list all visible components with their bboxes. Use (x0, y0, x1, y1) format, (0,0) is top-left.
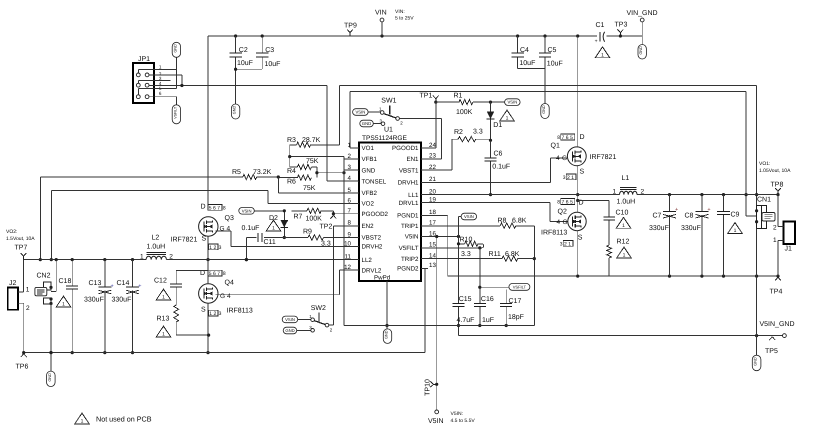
net VSIN at D2 (239, 208, 284, 215)
transistor Q1 IRF7821 (551, 134, 617, 176)
transistor Q1 bottom pins (563, 174, 576, 181)
svg-text:IRF8113: IRF8113 (227, 308, 253, 315)
svg-text:10uF: 10uF (237, 60, 253, 67)
net VSFILT above C17 (478, 284, 530, 304)
svg-text:R4: R4 (287, 168, 296, 175)
svg-text:GND: GND (542, 105, 546, 114)
net VSIN above R10 (459, 213, 477, 220)
warning triangle C10 (616, 217, 631, 229)
svg-text:C17: C17 (509, 298, 522, 305)
svg-text:6: 6 (348, 197, 352, 204)
svg-text:4: 4 (227, 293, 231, 300)
svg-text:1: 1 (62, 302, 65, 308)
svg-text:TP1: TP1 (420, 93, 433, 100)
svg-text:1: 1 (506, 116, 509, 122)
resistor R12 (snubber) (607, 239, 630, 277)
svg-text:SW1: SW1 (381, 98, 396, 105)
svg-text:330uF: 330uF (681, 225, 701, 232)
svg-text:R13: R13 (157, 316, 170, 323)
svg-text:C9: C9 (731, 212, 740, 219)
svg-text:GND: GND (173, 44, 177, 53)
resistor R13 (snubber) (157, 305, 211, 337)
svg-text:R7: R7 (294, 214, 303, 221)
wire TONSEL select (JP1 to U1 pin 4) (149, 84, 359, 181)
svg-text:V5IN: V5IN (405, 234, 419, 241)
svg-text:VIN_GND: VIN_GND (627, 10, 658, 17)
connector J2 (8, 280, 30, 312)
diode D2 (269, 209, 288, 239)
resistor R11 6.8K (421, 251, 534, 261)
wire J2 pin2 to GND bus (18, 303, 24, 352)
op-amp U1 pin stubs (352, 148, 428, 270)
svg-text:EN2: EN2 (362, 223, 375, 230)
svg-text:U1: U1 (384, 127, 393, 134)
svg-text:5: 5 (348, 187, 352, 194)
svg-text:V5IN: V5IN (428, 418, 444, 425)
wire VFB2 (divider to U1 pin 5) (278, 177, 359, 193)
svg-text:4: 4 (348, 175, 352, 182)
resistor R8 6.8K (421, 218, 534, 229)
wire PGND1 (U1 pin 18) (421, 215, 448, 276)
svg-text:3: 3 (560, 241, 563, 247)
svg-text:PwPd: PwPd (374, 275, 391, 282)
svg-text:6.8K: 6.8K (512, 218, 527, 225)
svg-text:3: 3 (219, 245, 222, 251)
wire VO2 sense B (U1 pin 6) (50, 190, 359, 261)
wire J2 pin1 to VO2 (18, 260, 23, 292)
svg-text:1: 1 (773, 237, 777, 244)
svg-text:VFB1: VFB1 (362, 156, 378, 163)
ground GND below V5IN_GND (752, 336, 761, 371)
svg-text:R6: R6 (287, 178, 296, 185)
net VSIN at SW1 (353, 109, 381, 116)
ground GND above JP1 (172, 42, 180, 57)
svg-text:3.3: 3.3 (461, 251, 471, 258)
svg-text:C15: C15 (459, 296, 472, 303)
svg-text:+: + (138, 284, 141, 290)
svg-text:4: 4 (557, 219, 561, 226)
svg-text:3: 3 (563, 175, 566, 181)
svg-text:4.5 to 5.5V: 4.5 to 5.5V (451, 418, 476, 424)
ground GND below C5 (541, 104, 549, 119)
wire Q3 source to LL2 (206, 236, 209, 261)
ground GND at SW2 (283, 327, 311, 334)
svg-text:TP7: TP7 (15, 245, 28, 252)
capacitor C10 (snubber) (578, 201, 629, 246)
wire PGND bottom row (448, 275, 780, 278)
node TP9 test point (344, 23, 357, 37)
svg-text:Q3: Q3 (225, 215, 234, 222)
svg-text:VBST1: VBST1 (399, 167, 419, 174)
op-amp U1 pin numbers and names (344, 142, 436, 274)
svg-text:1.0uH: 1.0uH (147, 244, 166, 251)
svg-text:G: G (563, 219, 568, 226)
inductor L1 1.0uH (613, 175, 645, 206)
svg-text:VBST2: VBST2 (362, 235, 382, 242)
svg-text:GND: GND (754, 357, 758, 366)
svg-text:TP8: TP8 (771, 182, 784, 189)
svg-text:1.0uH: 1.0uH (617, 199, 636, 206)
resistor R3 28.7K (287, 137, 321, 157)
svg-text:TRIP1: TRIP1 (401, 223, 419, 230)
svg-text:EN1: EN1 (406, 156, 419, 163)
node TP3 test point (615, 22, 628, 38)
capacitor C1 (series, not used) (595, 22, 605, 44)
svg-text:C14: C14 (117, 280, 130, 287)
warning triangle CN2 (56, 296, 71, 308)
svg-text:VSIN: VSIN (464, 214, 474, 219)
switch SW1 (379, 98, 403, 126)
svg-text:3.3: 3.3 (321, 240, 331, 247)
svg-text:GND: GND (639, 46, 643, 55)
svg-text:VO1: VO1 (362, 145, 375, 152)
connector CN2 (35, 272, 53, 305)
warning triangle R13 (156, 326, 171, 338)
svg-text:D: D (200, 270, 205, 277)
svg-text:J2: J2 (9, 280, 17, 287)
wire VIN drop to Q3 drain (207, 36, 209, 207)
wire JP1 pin2 (149, 75, 182, 86)
svg-text:1.5Vout, 10A: 1.5Vout, 10A (6, 236, 35, 242)
svg-text:1: 1 (601, 53, 604, 59)
wire J1 pin2 from VO1 (778, 195, 784, 227)
svg-text:8: 8 (557, 200, 560, 206)
capacitor C11 0.1uF (242, 225, 285, 261)
svg-text:GND: GND (362, 121, 371, 126)
svg-text:TP10: TP10 (425, 379, 432, 396)
svg-text:C16: C16 (481, 296, 494, 303)
svg-text:1uF: 1uF (482, 317, 494, 324)
node TP5 test point (765, 337, 778, 355)
svg-text:VSFILT: VSFILT (513, 285, 527, 290)
svg-text:JP1: JP1 (138, 56, 150, 63)
svg-text:1: 1 (272, 226, 275, 232)
ground GND below U1 (383, 326, 391, 344)
svg-text:R8: R8 (498, 218, 507, 225)
capacitor C5 (539, 36, 563, 103)
svg-text:330uF: 330uF (649, 225, 669, 232)
svg-text:4: 4 (556, 155, 560, 162)
svg-text:1: 1 (623, 253, 626, 259)
svg-text:100K: 100K (306, 216, 323, 223)
ground GND below C2 (231, 104, 239, 119)
wire GND column (pin3 to GND bus) (343, 157, 345, 326)
node TP6 test point (16, 354, 29, 371)
svg-text:V5IN_GND: V5IN_GND (760, 321, 795, 328)
wire VO2 output rail (24, 258, 360, 261)
transistor Q2 bottom pins (560, 240, 573, 247)
resistor R2 3.3 (421, 129, 491, 170)
capacitor C7 330uF (649, 195, 678, 277)
svg-text:1: 1 (734, 228, 737, 234)
capacitor C12 (snubber) (154, 270, 209, 305)
svg-text:2: 2 (773, 225, 777, 232)
transistor Q2 top pins (557, 199, 574, 206)
wire V5IN (U1 pin 16) (421, 220, 460, 304)
svg-text:S: S (202, 236, 207, 243)
svg-text:GND: GND (48, 373, 52, 382)
svg-text:S: S (578, 235, 583, 242)
wire JP1 pin5 to GND (138, 70, 176, 95)
wire DRVL1 to Q2 gate (U1 pin 19) (421, 203, 568, 222)
svg-text:DRVH1: DRVH1 (398, 180, 419, 187)
diode D1 (487, 102, 503, 142)
svg-text:0.1uF: 0.1uF (492, 163, 510, 170)
svg-text:330uF: 330uF (84, 297, 104, 304)
wire SW2 to EN2 (U1 pin 8) (329, 226, 359, 325)
svg-text:1: 1 (613, 189, 617, 196)
svg-text:S: S (201, 307, 206, 314)
capacitor C6 0.1uF (485, 140, 511, 196)
svg-text:R10: R10 (460, 236, 473, 243)
svg-text:C6: C6 (494, 151, 503, 158)
connector JP1 pins (136, 73, 149, 99)
warning triangle R12 (617, 247, 632, 259)
transistor Q4 bottom pins (209, 310, 222, 317)
svg-text:VO2: VO2 (362, 201, 375, 208)
svg-text:1.05Vout, 10A: 1.05Vout, 10A (759, 168, 791, 174)
svg-text:PGND2: PGND2 (397, 266, 419, 273)
svg-text:DRVH2: DRVH2 (362, 244, 383, 251)
resistor R4 75K (287, 157, 319, 178)
wire Q4 drain to LL2 (207, 260, 209, 284)
svg-text:1: 1 (622, 223, 625, 229)
svg-text:R1: R1 (454, 92, 463, 99)
svg-text:TRIP2: TRIP2 (401, 256, 419, 263)
connector JP1 (133, 56, 154, 103)
wire CN2 pins (49, 260, 56, 355)
net VSIN right of R1 (489, 99, 520, 106)
wire Q2 source to PGND (577, 231, 579, 277)
svg-text:VO2:: VO2: (6, 229, 17, 235)
svg-text:C18: C18 (59, 278, 72, 285)
svg-text:73.2K: 73.2K (253, 169, 272, 176)
svg-text:3.3: 3.3 (473, 129, 483, 136)
svg-text:+: + (675, 207, 678, 213)
svg-text:G: G (220, 293, 225, 300)
node TP4 test point (770, 277, 783, 295)
op-amp U1 TPS51124RGE box (359, 127, 421, 282)
svg-text:6: 6 (159, 91, 162, 96)
wire U1 thermal pad to GND (385, 281, 388, 327)
capacitor C3 (256, 36, 280, 69)
svg-text:IRF8113: IRF8113 (541, 230, 567, 237)
svg-text:VSFILT: VSFILT (173, 106, 177, 119)
svg-text:GND: GND (285, 328, 294, 333)
svg-text:V5FILT: V5FILT (399, 245, 419, 252)
svg-text:GND: GND (233, 106, 237, 115)
svg-text:V5IN:: V5IN: (451, 411, 464, 417)
svg-text:GND: GND (362, 167, 376, 174)
ground GND at SW1 (360, 120, 381, 127)
svg-text:2: 2 (169, 254, 173, 261)
svg-text:10uF: 10uF (547, 60, 563, 67)
wire JP1 pin3 stub (138, 80, 170, 83)
svg-text:IRF7821: IRF7821 (171, 237, 198, 244)
wire GND row (U1 pin 3) (315, 170, 359, 174)
switch SW2 (309, 305, 333, 333)
svg-text:C1: C1 (596, 22, 605, 29)
wire R8/R11 to GND net (533, 226, 536, 326)
svg-text:C10: C10 (616, 210, 629, 217)
svg-text:Not used on PCB: Not used on PCB (96, 415, 152, 424)
svg-text:5 to 25V: 5 to 25V (395, 16, 414, 22)
transistor Q2 IRF8113 (541, 200, 586, 242)
capacitor C15 4.7uF (453, 296, 475, 336)
svg-text:8: 8 (223, 271, 226, 277)
svg-text:+: + (707, 207, 710, 213)
svg-text:TP4: TP4 (770, 289, 783, 296)
svg-text:3: 3 (348, 164, 352, 171)
svg-text:TPS51124RGE: TPS51124RGE (362, 135, 408, 142)
svg-text:2: 2 (641, 189, 645, 196)
warning triangle C12 (156, 289, 171, 301)
wire R7 to PGOOD2 (U1 pin 7) (332, 211, 359, 215)
svg-text:2: 2 (348, 153, 352, 160)
node VO2 annotation (0, 0, 1, 1)
wire Q1 drain from VIN (577, 36, 579, 147)
svg-text:J1: J1 (785, 246, 793, 253)
svg-text:75K: 75K (303, 185, 316, 192)
capacitor C14 330uF (112, 260, 142, 355)
node TP1 test point (420, 93, 439, 104)
svg-text:10uF: 10uF (265, 61, 281, 68)
svg-text:1: 1 (159, 64, 162, 69)
node VIN terminal (375, 9, 414, 36)
svg-text:DRVL2: DRVL2 (362, 267, 382, 274)
svg-text:IRF7821: IRF7821 (590, 154, 617, 161)
svg-text:100K: 100K (456, 109, 473, 116)
svg-text:R5: R5 (232, 169, 241, 176)
svg-text:TP9: TP9 (344, 23, 357, 30)
wire V5FILT (U1 pin 15) (421, 246, 481, 249)
svg-text:R3: R3 (287, 137, 296, 144)
transistor Q3 top pins (208, 204, 226, 211)
svg-text:2: 2 (26, 305, 30, 312)
svg-text:18pF: 18pF (508, 314, 524, 321)
transistor Q4 top pins (208, 270, 226, 277)
wire DRVH1 to Q1 gate (U1 pin 21) (421, 158, 567, 182)
node V5IN_GND terminal (760, 321, 795, 328)
svg-text:1: 1 (26, 287, 30, 294)
svg-text:D1: D1 (493, 122, 502, 129)
capacitor C9 (717, 195, 740, 277)
svg-text:VSIN: VSIN (356, 110, 366, 115)
svg-text:R9: R9 (303, 228, 312, 235)
svg-text:C12: C12 (154, 278, 167, 285)
svg-text:VSIN: VSIN (242, 208, 252, 213)
svg-text:CN1: CN1 (757, 196, 771, 203)
svg-text:PGOOD2: PGOOD2 (362, 211, 389, 218)
wire VO1 remote sense (R3 to CN1) (311, 86, 759, 206)
svg-text:Q4: Q4 (225, 280, 234, 287)
svg-text:SW2: SW2 (311, 305, 326, 312)
wire VIN top rail (208, 34, 642, 37)
svg-text:R11: R11 (489, 251, 501, 258)
svg-text:LL2: LL2 (362, 257, 373, 264)
wire Q2 drain to LL1 (576, 195, 579, 213)
wire PGOOD1 to TP1 (421, 102, 436, 148)
capacitor C16 1uF (474, 248, 494, 327)
warning triangle D1 (500, 110, 515, 122)
svg-text:CN2: CN2 (37, 272, 51, 279)
svg-text:L1: L1 (622, 175, 630, 182)
node TP2 test point (320, 215, 337, 230)
svg-text:VIN:: VIN: (395, 9, 405, 15)
svg-text:VO1:: VO1: (759, 161, 770, 167)
wire JP1 pin6 to VSFILT (149, 97, 176, 105)
net VSFILT below JP1 (172, 105, 180, 124)
svg-text:TP2: TP2 (320, 224, 333, 231)
ground GND below VIN_GND (638, 45, 646, 60)
svg-text:Q1: Q1 (551, 143, 560, 150)
svg-text:28.7K: 28.7K (302, 137, 321, 144)
svg-text:1: 1 (162, 332, 165, 338)
capacitor C13 330uF (84, 260, 114, 355)
node V5IN terminal (428, 410, 475, 425)
svg-text:+: + (111, 284, 114, 290)
svg-text:D: D (201, 203, 206, 210)
svg-text:C13: C13 (89, 280, 102, 287)
transistor Q4 IRF8113 (199, 270, 253, 315)
net VSIN at SW2 (282, 316, 311, 323)
svg-text:C8: C8 (685, 213, 694, 220)
svg-text:+: + (595, 38, 598, 44)
wire Q4 source to GND bus (206, 303, 209, 354)
svg-text:TP6: TP6 (16, 364, 29, 371)
transistor Q3 bottom pins (209, 244, 222, 251)
wire Q3 gate to DRVH2 (U1 pin 10) (216, 231, 360, 247)
svg-text:TP5: TP5 (765, 348, 778, 355)
wire Q4 gate to DRVL2 (U1 pin 12) (216, 270, 360, 295)
svg-text:VIN: VIN (375, 10, 387, 17)
svg-text:C4: C4 (520, 47, 529, 54)
svg-text:C2: C2 (239, 47, 248, 54)
node VIN_GND terminal (627, 10, 658, 45)
svg-text:1: 1 (81, 419, 84, 425)
svg-text:10uF: 10uF (519, 60, 535, 67)
capacitor C8 330uF (681, 195, 711, 277)
wire JP1 pin1 to GND (138, 57, 176, 73)
wire GND bottom bus (22, 268, 425, 354)
capacitor C4 (511, 36, 545, 69)
wire analog GND row (344, 325, 534, 327)
wire VO2 sense A (39, 177, 42, 261)
capacitor C18 (59, 260, 79, 355)
resistor R5 73.2K (40, 169, 280, 180)
svg-text:C5: C5 (548, 47, 557, 54)
ground GND on bottom bus (47, 351, 56, 387)
svg-text:DRVL1: DRVL1 (399, 200, 419, 207)
capacitor C17 18pF (500, 298, 524, 327)
connector CN1 (755, 196, 775, 228)
svg-text:VFB2: VFB2 (362, 190, 378, 197)
wire SW1 to EN1 (U1 pin 23) (399, 119, 441, 159)
svg-text:8: 8 (557, 135, 560, 141)
wire Q1 source to LL1 (576, 166, 579, 196)
svg-text:C7: C7 (653, 213, 662, 220)
svg-text:1: 1 (140, 254, 144, 261)
svg-text:D: D (580, 134, 585, 141)
connector JP1 pin numbers (159, 64, 162, 96)
wire V5IN to TP10 (435, 235, 438, 410)
svg-text:G: G (562, 155, 567, 162)
svg-text:L2: L2 (152, 235, 160, 242)
svg-text:C11: C11 (264, 239, 276, 246)
svg-text:PGOOD1: PGOOD1 (392, 145, 419, 152)
svg-text:R2: R2 (454, 129, 463, 136)
svg-text:R12: R12 (617, 239, 630, 246)
